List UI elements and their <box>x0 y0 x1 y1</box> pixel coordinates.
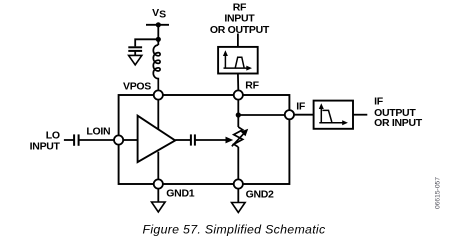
svg-text:Figure 57. Simplified Schemati: Figure 57. Simplified Schematic <box>143 222 326 236</box>
svg-text:OR OUTPUT: OR OUTPUT <box>210 24 270 36</box>
svg-text:INPUT: INPUT <box>224 13 255 25</box>
svg-text:GND1: GND1 <box>166 188 194 200</box>
svg-text:LOIN: LOIN <box>86 126 110 138</box>
svg-text:06615-057: 06615-057 <box>434 177 441 209</box>
svg-text:IF: IF <box>374 96 384 108</box>
svg-text:RF: RF <box>245 80 259 92</box>
svg-text:LO: LO <box>46 129 60 141</box>
svg-text:S: S <box>159 8 166 20</box>
svg-text:GND2: GND2 <box>246 189 274 201</box>
svg-text:RF: RF <box>233 1 247 13</box>
svg-text:VPOS: VPOS <box>123 81 151 93</box>
svg-text:IF: IF <box>296 100 306 112</box>
svg-text:INPUT: INPUT <box>30 141 61 153</box>
svg-text:OR INPUT: OR INPUT <box>374 117 423 129</box>
